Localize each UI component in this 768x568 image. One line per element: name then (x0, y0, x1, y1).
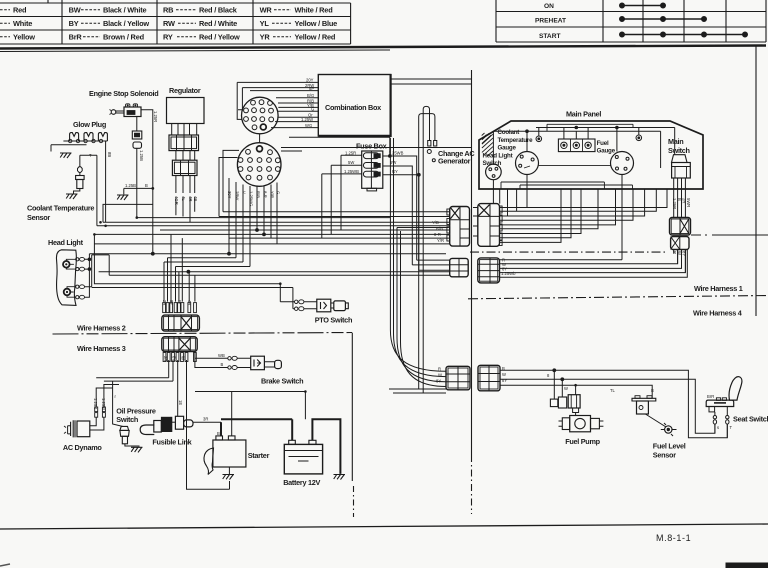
svg-text:5W: 5W (348, 160, 354, 165)
svg-text:8B: 8B (107, 152, 112, 157)
svg-text:Main Panel: Main Panel (566, 110, 601, 119)
svg-text:W: W (677, 251, 682, 255)
svg-text:4GR: 4GR (174, 196, 179, 205)
svg-text:Coolant Temperature: Coolant Temperature (27, 204, 94, 213)
svg-text:START: START (539, 33, 561, 40)
svg-text:Glow Plug: Glow Plug (73, 120, 106, 129)
svg-text:Red / Yellow: Red / Yellow (199, 32, 240, 41)
svg-text:BrR: BrR (707, 394, 714, 399)
svg-text:1.25B: 1.25B (139, 150, 144, 161)
svg-text:Red: Red (13, 5, 27, 14)
svg-text:ON: ON (544, 3, 554, 10)
svg-text:PREHEAT: PREHEAT (535, 18, 566, 25)
svg-text:Gauge: Gauge (597, 148, 616, 155)
svg-text:Yellow: Yellow (13, 32, 35, 41)
svg-text:8Y: 8Y (436, 379, 441, 384)
svg-text:8Y: 8Y (172, 356, 177, 361)
svg-text:WR: WR (260, 5, 273, 14)
svg-text:Fuel: Fuel (597, 140, 609, 147)
svg-text:TL: TL (610, 388, 616, 393)
svg-text:V: V (242, 191, 247, 194)
svg-text:Gauge: Gauge (498, 145, 517, 152)
svg-text:8: 8 (547, 373, 550, 378)
svg-text:2R: 2R (162, 300, 167, 305)
svg-text:Y/R: Y/R (437, 238, 444, 243)
svg-text:T: T (89, 153, 92, 158)
svg-text:1E: 1E (178, 400, 183, 405)
svg-text:WG: WG (305, 123, 312, 128)
svg-text:4L: 4L (181, 196, 186, 201)
svg-text:Red / White: Red / White (199, 19, 237, 28)
svg-text:Y/R: Y/R (270, 191, 275, 198)
svg-text:B/G: B/G (307, 93, 314, 98)
svg-text:2RW: 2RW (235, 191, 240, 200)
svg-text:BY: BY (69, 19, 79, 28)
svg-text:G: G (276, 191, 281, 194)
svg-text:Fuel Level: Fuel Level (653, 442, 686, 451)
svg-text:RY: RY (392, 169, 398, 174)
svg-text:Y/B: Y/B (432, 220, 439, 225)
svg-text:Switch: Switch (668, 146, 690, 155)
svg-text:RW: RW (163, 19, 175, 28)
svg-text:T: T (730, 425, 733, 430)
svg-text:Starter: Starter (248, 451, 270, 460)
svg-text:B: B (145, 183, 148, 188)
svg-text:B: B (221, 362, 224, 367)
svg-text:BrR: BrR (69, 32, 83, 41)
svg-text:W: W (177, 300, 182, 304)
svg-text:Engine Stop Solenoid: Engine Stop Solenoid (89, 89, 158, 98)
svg-text:1.25WG: 1.25WG (249, 191, 254, 206)
svg-text:4B: 4B (193, 196, 198, 201)
svg-text:1.25R: 1.25R (672, 198, 677, 209)
svg-text:8-R: 8-R (434, 232, 441, 237)
svg-text:Fuel Pump: Fuel Pump (565, 437, 600, 446)
svg-text:Wire Harness 3: Wire Harness 3 (77, 344, 126, 353)
svg-text:Black / White: Black / White (103, 5, 146, 14)
svg-text:5W: 5W (390, 160, 396, 165)
svg-text:R/B: R/B (256, 191, 261, 198)
svg-text:M.8-1-1: M.8-1-1 (656, 533, 691, 543)
svg-text:Black / Yellow: Black / Yellow (103, 19, 149, 28)
svg-text:4R: 4R (188, 196, 193, 201)
svg-text:BW: BW (69, 5, 81, 14)
svg-text:PTO Switch: PTO Switch (315, 316, 352, 325)
svg-text:YL: YL (260, 19, 270, 28)
svg-text:8P: 8P (309, 86, 314, 91)
svg-text:Brake Switch: Brake Switch (261, 377, 303, 386)
svg-text:r: r (115, 394, 117, 399)
svg-text:W: W (502, 372, 506, 377)
svg-text:Head Light: Head Light (48, 238, 84, 247)
svg-text:AC Dynamo: AC Dynamo (63, 443, 102, 452)
svg-text:White: White (13, 19, 32, 28)
svg-text:G: G (311, 107, 314, 112)
svg-text:2R: 2R (682, 198, 687, 203)
svg-text:B: B (677, 198, 682, 201)
svg-text:B: B (217, 431, 220, 436)
svg-text:1.25B: 1.25B (125, 183, 136, 188)
svg-text:WB: WB (218, 353, 225, 358)
svg-text:8Y: 8Y (682, 251, 687, 256)
svg-text:RY: RY (163, 32, 173, 41)
svg-text:Sensor: Sensor (653, 451, 676, 460)
svg-text:R: R (438, 367, 441, 372)
svg-text:B: B (651, 388, 654, 393)
svg-text:W: W (438, 373, 442, 378)
svg-text:20Y: 20Y (306, 78, 314, 83)
svg-text:4R: 4R (187, 300, 192, 305)
svg-text:1.25WB: 1.25WB (389, 151, 404, 156)
svg-text:R/B: R/B (436, 226, 443, 231)
svg-text:Battery 12V: Battery 12V (283, 478, 320, 487)
svg-text:Red / Black: Red / Black (199, 5, 238, 14)
svg-text:Yellow / Red: Yellow / Red (295, 32, 336, 41)
svg-text:Fuse Box: Fuse Box (356, 142, 387, 151)
svg-text:Temperature: Temperature (498, 137, 534, 144)
svg-text:Generator: Generator (438, 157, 471, 166)
svg-text:1.25W: 1.25W (101, 398, 106, 410)
svg-text:2R: 2R (163, 356, 168, 361)
svg-text:Seat Switch: Seat Switch (733, 415, 768, 424)
svg-text:30Y: 30Y (227, 191, 232, 199)
svg-text:B: B (502, 366, 505, 371)
svg-text:Sensor: Sensor (27, 213, 50, 222)
svg-text:YR: YR (260, 32, 271, 41)
svg-text:Switch: Switch (116, 415, 138, 424)
svg-text:1.25WB: 1.25WB (344, 169, 359, 174)
svg-text:1.25R: 1.25R (345, 151, 356, 156)
svg-text:Wire Harness 4: Wire Harness 4 (693, 309, 743, 318)
svg-text:Yellow / Blue: Yellow / Blue (295, 19, 338, 28)
svg-text:1.25W: 1.25W (301, 117, 313, 122)
svg-text:R: R (672, 251, 677, 254)
svg-text:White / Red: White / Red (295, 5, 334, 14)
svg-text:Wire Harness 2: Wire Harness 2 (77, 324, 126, 333)
svg-text:8Y: 8Y (169, 300, 174, 305)
svg-text:1.25R: 1.25R (93, 398, 98, 409)
svg-text:5WR: 5WR (686, 198, 691, 207)
svg-text:Main: Main (668, 137, 683, 146)
svg-text:1.25R: 1.25R (153, 111, 158, 122)
svg-text:1.25Wb: 1.25Wb (501, 271, 516, 276)
svg-text:Head Light: Head Light (483, 153, 513, 160)
svg-text:Coolant: Coolant (498, 129, 520, 136)
svg-text:RB: RB (163, 5, 173, 14)
svg-text:Wire Harness 1: Wire Harness 1 (694, 284, 743, 293)
svg-text:3R: 3R (203, 417, 208, 422)
svg-text:Brown / Red: Brown / Red (103, 32, 145, 41)
svg-text:W: W (181, 356, 186, 360)
svg-text:W: W (564, 386, 568, 391)
svg-text:8-R: 8-R (263, 191, 268, 198)
svg-text:Regulator: Regulator (169, 86, 201, 95)
svg-text:8Y: 8Y (502, 378, 507, 383)
svg-text:Combination Box: Combination Box (325, 103, 381, 112)
svg-text:s: s (717, 425, 719, 430)
